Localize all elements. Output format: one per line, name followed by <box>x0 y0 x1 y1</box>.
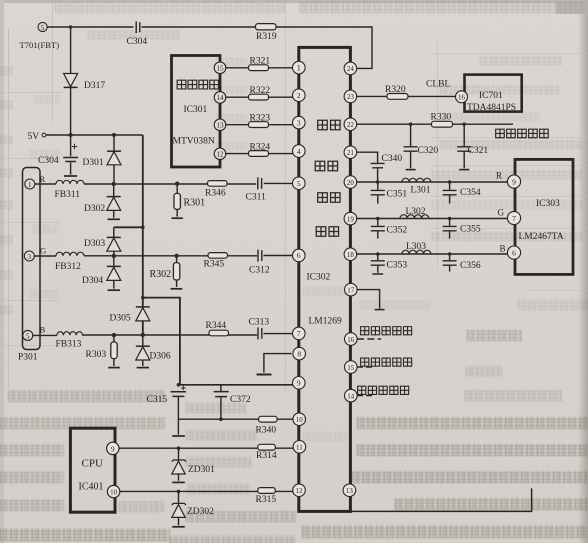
svg-text:5: 5 <box>41 24 45 32</box>
pin 9 of CPU <box>107 442 119 454</box>
label 屏显电路 (IC301) <box>177 80 218 89</box>
wire pin15 to pin1 <box>225 67 293 69</box>
wire pin13 bottom stub <box>351 488 532 511</box>
diode D303 <box>107 227 121 256</box>
svg-text:1: 1 <box>28 180 32 189</box>
svg-text:R319: R319 <box>256 32 277 42</box>
svg-text:FB313: FB313 <box>56 340 82 350</box>
wire CPU pin9 to IC302 pin11 <box>119 447 294 449</box>
pin 6 of IC303 <box>507 246 520 259</box>
svg-text:R322: R322 <box>250 86 271 96</box>
svg-text:C311: C311 <box>246 193 266 203</box>
pin 23 of IC302 <box>344 90 357 103</box>
capacitor C315 electrolytic <box>171 386 186 436</box>
resistor R315 <box>258 488 276 494</box>
svg-text:T701(FBT): T701(FBT) <box>20 40 60 50</box>
svg-text:7: 7 <box>297 329 301 338</box>
faint table rules (bleed-through) <box>8 28 9 388</box>
svg-text:R: R <box>496 171 502 181</box>
svg-text:R303: R303 <box>86 350 107 360</box>
capacitor C304 electrolytic (on 5V rail) <box>63 135 78 176</box>
ferrite bead FB313 <box>57 332 83 336</box>
label 绿截止控制 (green cutoff control) <box>361 358 412 366</box>
resistor R319 <box>256 24 277 30</box>
pin 5 of IC302 <box>293 177 306 190</box>
pin 9 of IC303 <box>507 175 520 188</box>
pin 12 of IC301 <box>214 148 226 160</box>
svg-text:C312: C312 <box>249 266 270 276</box>
svg-text:7: 7 <box>512 214 516 223</box>
svg-text:5: 5 <box>26 331 30 340</box>
wire pin15 stub (green cutoff) <box>357 366 374 368</box>
svg-text:ZD301: ZD301 <box>188 465 215 475</box>
svg-text:R302: R302 <box>150 269 172 280</box>
svg-text:R324: R324 <box>250 143 271 153</box>
resistor R301 <box>172 184 183 218</box>
svg-text:C351: C351 <box>387 190 408 200</box>
wire pin18 rail (B) <box>356 253 508 255</box>
pin 15 of IC301 <box>214 62 226 74</box>
svg-text:D304: D304 <box>82 276 103 286</box>
scan background layers <box>0 0 588 3</box>
capacitor C312 (series) <box>258 250 262 262</box>
svg-text:12: 12 <box>217 151 225 159</box>
IC701 box <box>465 75 522 112</box>
IC301 box <box>172 56 221 168</box>
pin 4 of IC302 <box>293 145 306 158</box>
svg-text:14: 14 <box>347 392 355 400</box>
node 1 (R input) <box>25 179 35 189</box>
pin 1 of IC302 <box>293 61 306 74</box>
resistor R321 <box>249 65 269 71</box>
wire pin13 to pin3 <box>225 124 293 126</box>
CPU IC401 box <box>70 428 115 512</box>
2. heading bleed (bold, mirrored) <box>467 330 522 341</box>
wire pin8 stub <box>257 354 292 375</box>
svg-text:9: 9 <box>111 444 115 453</box>
node 5 (B input) <box>23 330 33 340</box>
node 3 (G input) <box>24 251 34 261</box>
svg-text:R314: R314 <box>256 451 277 461</box>
label 束电流控制 (beam current control) <box>496 129 549 138</box>
pin 7 of IC303 <box>507 211 520 224</box>
svg-text:22: 22 <box>347 121 355 129</box>
svg-text:C304: C304 <box>127 37 148 47</box>
svg-text:3: 3 <box>27 252 31 261</box>
label 视频 (IC302) <box>318 120 340 130</box>
IC302 box <box>299 47 351 511</box>
svg-text:R330: R330 <box>431 113 452 123</box>
label 电路 (IC302) <box>316 227 338 237</box>
pin 24 of IC302 <box>344 62 357 75</box>
svg-text:15: 15 <box>217 65 225 73</box>
pin 2 of IC302 <box>293 89 306 102</box>
inductor L302 <box>400 215 429 219</box>
svg-text:D305: D305 <box>110 314 131 324</box>
wire 5V rail <box>46 134 143 136</box>
pin 20 of IC302 <box>344 176 357 189</box>
svg-text:C340: C340 <box>382 154 403 164</box>
svg-text:C352: C352 <box>387 226 408 236</box>
diode D302 <box>107 184 121 219</box>
wire pin22 beam current <box>356 123 513 125</box>
svg-text:D317: D317 <box>84 81 105 91</box>
pin 3 of IC302 <box>293 116 306 129</box>
svg-text:IC701: IC701 <box>479 91 503 101</box>
resistor R322 <box>249 94 269 100</box>
svg-text:15: 15 <box>347 364 355 372</box>
wire pin23 to IC701 pin16 <box>356 95 456 97</box>
capacitor C320 (shunt) <box>404 124 418 169</box>
ferrite bead FB312 <box>56 252 84 256</box>
svg-text:R323: R323 <box>250 114 271 124</box>
resistor R346 <box>208 181 228 187</box>
svg-text:11: 11 <box>296 444 303 452</box>
diode D317 <box>64 74 78 88</box>
svg-text:C304: C304 <box>38 156 59 166</box>
resistor R314 <box>258 444 276 450</box>
wire R rail <box>35 182 294 185</box>
pin 6 of IC302 <box>293 249 306 262</box>
wire pin9 rail <box>180 384 294 386</box>
resistor R320 <box>387 94 408 100</box>
capacitor C311 (series) <box>258 177 262 189</box>
svg-text:CPU: CPU <box>82 458 103 470</box>
pin 16 of IC302 <box>345 333 358 346</box>
wire 5V feed to diodes <box>114 135 180 385</box>
svg-text:R320: R320 <box>385 85 406 95</box>
svg-text:R340: R340 <box>256 426 277 436</box>
wire top rail from node 5 to pin 24 of IC302 <box>47 27 372 68</box>
inductor L301 <box>402 178 431 182</box>
svg-text:D301: D301 <box>83 158 104 168</box>
svg-text:14: 14 <box>217 94 225 102</box>
pin 19 of IC302 <box>344 212 357 225</box>
label 红截止控制 (red cutoff control) <box>361 327 412 335</box>
svg-text:6: 6 <box>512 248 516 257</box>
pin 10 of IC302 <box>293 413 306 426</box>
wire CPU pin10 to IC302 pin12 <box>120 490 294 492</box>
wire pin16 stub (red cutoff) <box>357 338 381 340</box>
svg-text:21: 21 <box>347 149 355 157</box>
svg-text:R321: R321 <box>250 57 271 67</box>
pin 21 of IC302 <box>344 146 357 159</box>
node 5V <box>42 133 46 137</box>
svg-text:1: 1 <box>297 63 301 72</box>
svg-text:6: 6 <box>297 251 301 260</box>
wire pin12 to pin4 <box>225 153 293 155</box>
pin 22 of IC302 <box>344 118 357 131</box>
inductor L303 <box>402 250 431 254</box>
pin 16 of IC701 <box>456 91 468 103</box>
label 前置 (IC302) <box>315 161 337 171</box>
svg-text:C356: C356 <box>460 261 481 271</box>
svg-text:9: 9 <box>297 379 301 388</box>
bleed-through text rows (mirrored print from reverse page, faked as texture) <box>55 3 285 13</box>
node 5 T701(FBT) <box>38 22 47 32</box>
capacitor C353 (shunt) <box>371 254 385 274</box>
svg-text:C354: C354 <box>460 188 481 198</box>
svg-text:IC401: IC401 <box>79 482 104 493</box>
svg-text:LM1269: LM1269 <box>309 317 343 327</box>
svg-text:16: 16 <box>458 94 466 102</box>
svg-text:13: 13 <box>217 122 225 130</box>
ferrite bead FB311 <box>56 180 84 184</box>
resistor R345 <box>208 253 228 259</box>
svg-text:D302: D302 <box>84 204 105 214</box>
connector P301 <box>23 168 41 350</box>
svg-text:G: G <box>498 208 505 218</box>
pin 7 of IC302 <box>293 327 306 340</box>
svg-text:IC302: IC302 <box>307 273 331 283</box>
resistor R344 <box>209 330 229 336</box>
pin 8 of IC302 <box>293 347 306 360</box>
wire G rail <box>34 255 293 258</box>
diode D306 <box>136 335 150 368</box>
pin 15 of IC302 <box>345 361 358 374</box>
svg-text:C320: C320 <box>418 146 439 156</box>
svg-text:MTV038N: MTV038N <box>173 137 215 147</box>
wire pin14 to pin2 <box>225 96 293 98</box>
svg-text:C353: C353 <box>387 261 408 271</box>
pin 13 of IC302 <box>343 484 356 497</box>
svg-text:4: 4 <box>297 147 301 156</box>
svg-text:IC303: IC303 <box>536 199 560 209</box>
svg-text:20: 20 <box>347 179 355 187</box>
svg-text:L301: L301 <box>411 186 431 196</box>
svg-text:13: 13 <box>346 487 354 495</box>
svg-text:TDA4841PS: TDA4841PS <box>467 103 516 113</box>
svg-text:12: 12 <box>296 487 304 495</box>
svg-text:B: B <box>40 325 46 335</box>
wire pin17 stub <box>356 290 384 310</box>
svg-text:3: 3 <box>297 118 301 127</box>
pin 14 of IC302 <box>345 389 358 402</box>
svg-text:R: R <box>40 174 46 184</box>
svg-text:B: B <box>500 244 506 254</box>
svg-text:FB311: FB311 <box>55 190 81 200</box>
svg-text:CLBL: CLBL <box>426 80 450 90</box>
label 蓝截止控制 (blue cutoff control) <box>358 386 409 394</box>
IC303 box <box>515 159 573 274</box>
capacitor C351 (shunt) <box>371 182 385 204</box>
svg-text:17: 17 <box>347 286 355 294</box>
capacitor C356 (shunt) <box>443 254 457 272</box>
wire pin19 rail (G) <box>356 218 508 220</box>
diode D301 <box>107 151 121 165</box>
wire D317 branch <box>70 27 72 135</box>
pin 18 of IC302 <box>344 248 357 261</box>
wire pin21 to C340 <box>356 152 378 182</box>
resistor R323 <box>249 122 269 128</box>
svg-text:R301: R301 <box>184 198 206 209</box>
wire pin20 rail (R to CRT driver) <box>356 181 508 183</box>
capacitor C313 (series) <box>258 327 262 339</box>
svg-text:D303: D303 <box>84 239 105 249</box>
wire R340 row to pin10 <box>178 418 293 420</box>
svg-text:16: 16 <box>347 336 355 344</box>
diode D304 <box>107 256 121 290</box>
svg-text:R346: R346 <box>205 189 226 199</box>
svg-text:2: 2 <box>297 91 301 100</box>
svg-text:R344: R344 <box>206 321 227 331</box>
svg-text:L303: L303 <box>406 242 426 252</box>
svg-text:C313: C313 <box>249 318 270 328</box>
capacitor C304 (series, top rail) <box>136 21 140 33</box>
capacitor C372 <box>214 385 229 420</box>
pin 9 of IC302 <box>293 377 306 390</box>
resistor R302 <box>171 256 183 289</box>
diode D305 <box>136 307 150 321</box>
wire B rail <box>33 334 294 336</box>
svg-text:9: 9 <box>512 177 516 186</box>
svg-text:L302: L302 <box>406 207 426 217</box>
svg-text:G: G <box>40 246 46 256</box>
pin 11 of IC302 <box>293 441 306 454</box>
svg-text:C315: C315 <box>147 395 168 405</box>
zener ZD302 <box>172 491 186 526</box>
label 放大 (IC302) <box>318 193 340 203</box>
svg-text:C372: C372 <box>230 395 251 405</box>
svg-text:23: 23 <box>347 93 355 101</box>
wire D301 branch from 5V rail <box>113 135 115 184</box>
pin 14 of IC301 <box>214 92 226 104</box>
svg-text:C321: C321 <box>468 146 489 156</box>
resistor R330 <box>432 121 453 127</box>
resistor R324 <box>249 151 269 157</box>
svg-text:C355: C355 <box>460 225 481 235</box>
wire pin14 stub (blue cutoff) <box>357 395 374 397</box>
zener ZD301 <box>172 448 186 482</box>
svg-text:5V: 5V <box>28 132 40 142</box>
svg-text:ZD302: ZD302 <box>187 507 214 517</box>
pin 13 of IC301 <box>214 119 226 131</box>
svg-text:10: 10 <box>110 489 118 497</box>
pin 17 of IC302 <box>345 283 358 296</box>
svg-text:24: 24 <box>347 65 355 73</box>
svg-text:D306: D306 <box>150 352 171 362</box>
svg-text:10: 10 <box>296 416 304 424</box>
resistor R303 <box>108 335 120 368</box>
svg-text:FB312: FB312 <box>55 262 81 272</box>
svg-text:19: 19 <box>347 215 355 223</box>
svg-text:8: 8 <box>297 349 301 358</box>
pin 10 of CPU <box>107 485 119 497</box>
pin 12 of IC302 <box>293 484 306 497</box>
svg-text:18: 18 <box>347 251 355 259</box>
capacitor C352 (shunt) <box>371 219 385 239</box>
svg-text:5: 5 <box>297 179 301 188</box>
svg-text:P301: P301 <box>18 353 38 363</box>
capacitor C340 <box>371 163 385 167</box>
resistor R340 <box>259 416 278 422</box>
svg-text:R345: R345 <box>204 260 225 270</box>
capacitor C355 (shunt) <box>443 219 457 239</box>
svg-text:IC301: IC301 <box>184 105 208 115</box>
svg-text:R315: R315 <box>256 495 277 505</box>
capacitor C321 (shunt) <box>457 124 471 169</box>
capacitor C354 (shunt) <box>443 182 457 204</box>
svg-text:LM2467TA: LM2467TA <box>519 232 564 242</box>
